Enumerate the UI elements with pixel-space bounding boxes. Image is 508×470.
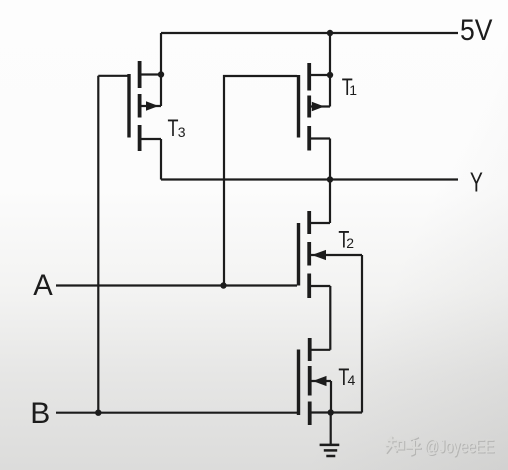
wire: T3 gate lead (98, 75, 127, 77)
watermark 知乎 @JoyeeEE (385, 436, 495, 458)
ground (320, 413, 340, 457)
node: T3 drain junction (158, 71, 164, 77)
svg-text:2: 2 (346, 235, 354, 251)
transistor T4 (299, 338, 363, 425)
transistor T3 (129, 61, 161, 151)
node: 5V rail junction (327, 30, 333, 36)
wire: T3 source down to Y line (160, 139, 162, 180)
wire: T1 gate lead from A junction (224, 76, 297, 286)
node: A junction (220, 282, 226, 288)
wire: Y junction down to T2 drain (329, 180, 331, 224)
output line Y (161, 178, 458, 180)
svg-text:4: 4 (348, 372, 356, 388)
node: T1 drain junction (327, 72, 333, 78)
svg-text:A: A (33, 269, 53, 302)
wire: left vertical from T3 gate down to B junction (97, 76, 99, 413)
transistor T2 (299, 211, 363, 298)
wire: T2 source down to T4 drain (329, 286, 331, 350)
svg-text:B: B (30, 397, 50, 430)
wire: rail corner down to T3 drain node (160, 33, 162, 75)
wire: T3 drain node down to T3 body lead (160, 75, 162, 107)
svg-text:Y: Y (470, 167, 483, 198)
node: B junction (95, 410, 101, 416)
svg-text:5V: 5V (460, 14, 493, 47)
node: Y junction (327, 176, 333, 182)
svg-text:1: 1 (349, 82, 357, 98)
5V power rail (161, 32, 458, 34)
wire: T2 body to ground node (right vertical) (361, 255, 363, 413)
node: ground junction (328, 409, 334, 415)
svg-text:3: 3 (178, 124, 186, 140)
transistor T1 (299, 63, 331, 151)
svg-text:@JoyeeEE: @JoyeeEE (424, 437, 494, 457)
wire: T1 source down to Y junction (329, 139, 331, 180)
input line B (56, 412, 297, 414)
input line A (56, 284, 297, 286)
wire: T1 drain vertical (5V rail to body) (329, 33, 331, 107)
